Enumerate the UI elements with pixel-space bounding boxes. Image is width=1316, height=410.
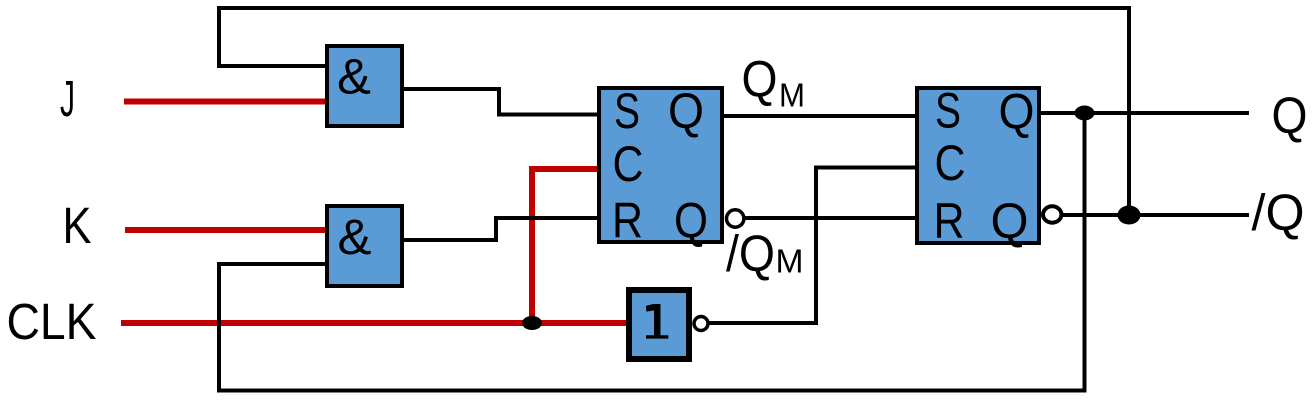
svg-text:/Q: /Q	[726, 225, 775, 282]
svg-text:M: M	[779, 77, 805, 114]
svg-text:CLK: CLK	[7, 293, 97, 350]
svg-text:K: K	[63, 197, 92, 254]
latch U1 output bubble	[727, 210, 744, 227]
and-gate G2 (K) box	[327, 206, 402, 286]
svg-text:Q: Q	[1272, 87, 1308, 144]
svg-text:R: R	[612, 193, 643, 249]
svg-text:C: C	[935, 135, 966, 191]
svg-text:&: &	[338, 209, 372, 265]
svg-text:Q: Q	[999, 84, 1035, 140]
wire output Q	[1038, 111, 1249, 115]
svg-text:J: J	[60, 70, 75, 127]
wire node QM: U1 Q to U2 S	[722, 114, 917, 118]
junction dot /Q node	[1118, 206, 1141, 225]
svg-text:/Q: /Q	[1252, 184, 1305, 241]
inverter U3 label 1	[654, 304, 661, 338]
svg-text:Q: Q	[991, 193, 1029, 249]
latch U1 (master) box	[599, 88, 722, 242]
wire AND1 output to latch U1 S input	[402, 89, 599, 115]
svg-text:S: S	[614, 83, 640, 139]
junction dot Q node	[1075, 106, 1095, 121]
svg-text:&: &	[337, 49, 371, 105]
wire output /Q	[1061, 213, 1249, 217]
inverter U3 box	[629, 290, 689, 359]
wire CLK branch to master C (red)	[532, 169, 599, 323]
svg-text:R: R	[934, 193, 965, 249]
wire inverter output to U2 C	[708, 168, 917, 324]
wire top feedback /Q to AND1 upper input	[219, 8, 1129, 215]
svg-text:Q: Q	[668, 83, 704, 139]
wire CLK input (red)	[121, 320, 629, 326]
inverter U3 output bubble	[694, 317, 708, 331]
junction dot CLK node	[522, 316, 542, 330]
svg-text:M: M	[776, 243, 804, 280]
wire K input (red)	[125, 227, 328, 233]
wire bottom feedback Q to AND2 lower input	[219, 113, 1085, 391]
wire AND2 output to latch U1 R input	[402, 218, 599, 240]
svg-text:Q: Q	[742, 51, 778, 108]
and-gate G1 (J) box	[327, 46, 402, 126]
svg-text:Q: Q	[674, 193, 708, 249]
wire node /QM: U1 /Q to U2 R	[744, 216, 917, 220]
svg-text:C: C	[613, 136, 644, 192]
svg-text:S: S	[935, 83, 961, 139]
wire J input (red)	[124, 99, 327, 105]
latch U2 (slave) box	[917, 88, 1039, 243]
latch U2 output bubble	[1043, 206, 1061, 222]
